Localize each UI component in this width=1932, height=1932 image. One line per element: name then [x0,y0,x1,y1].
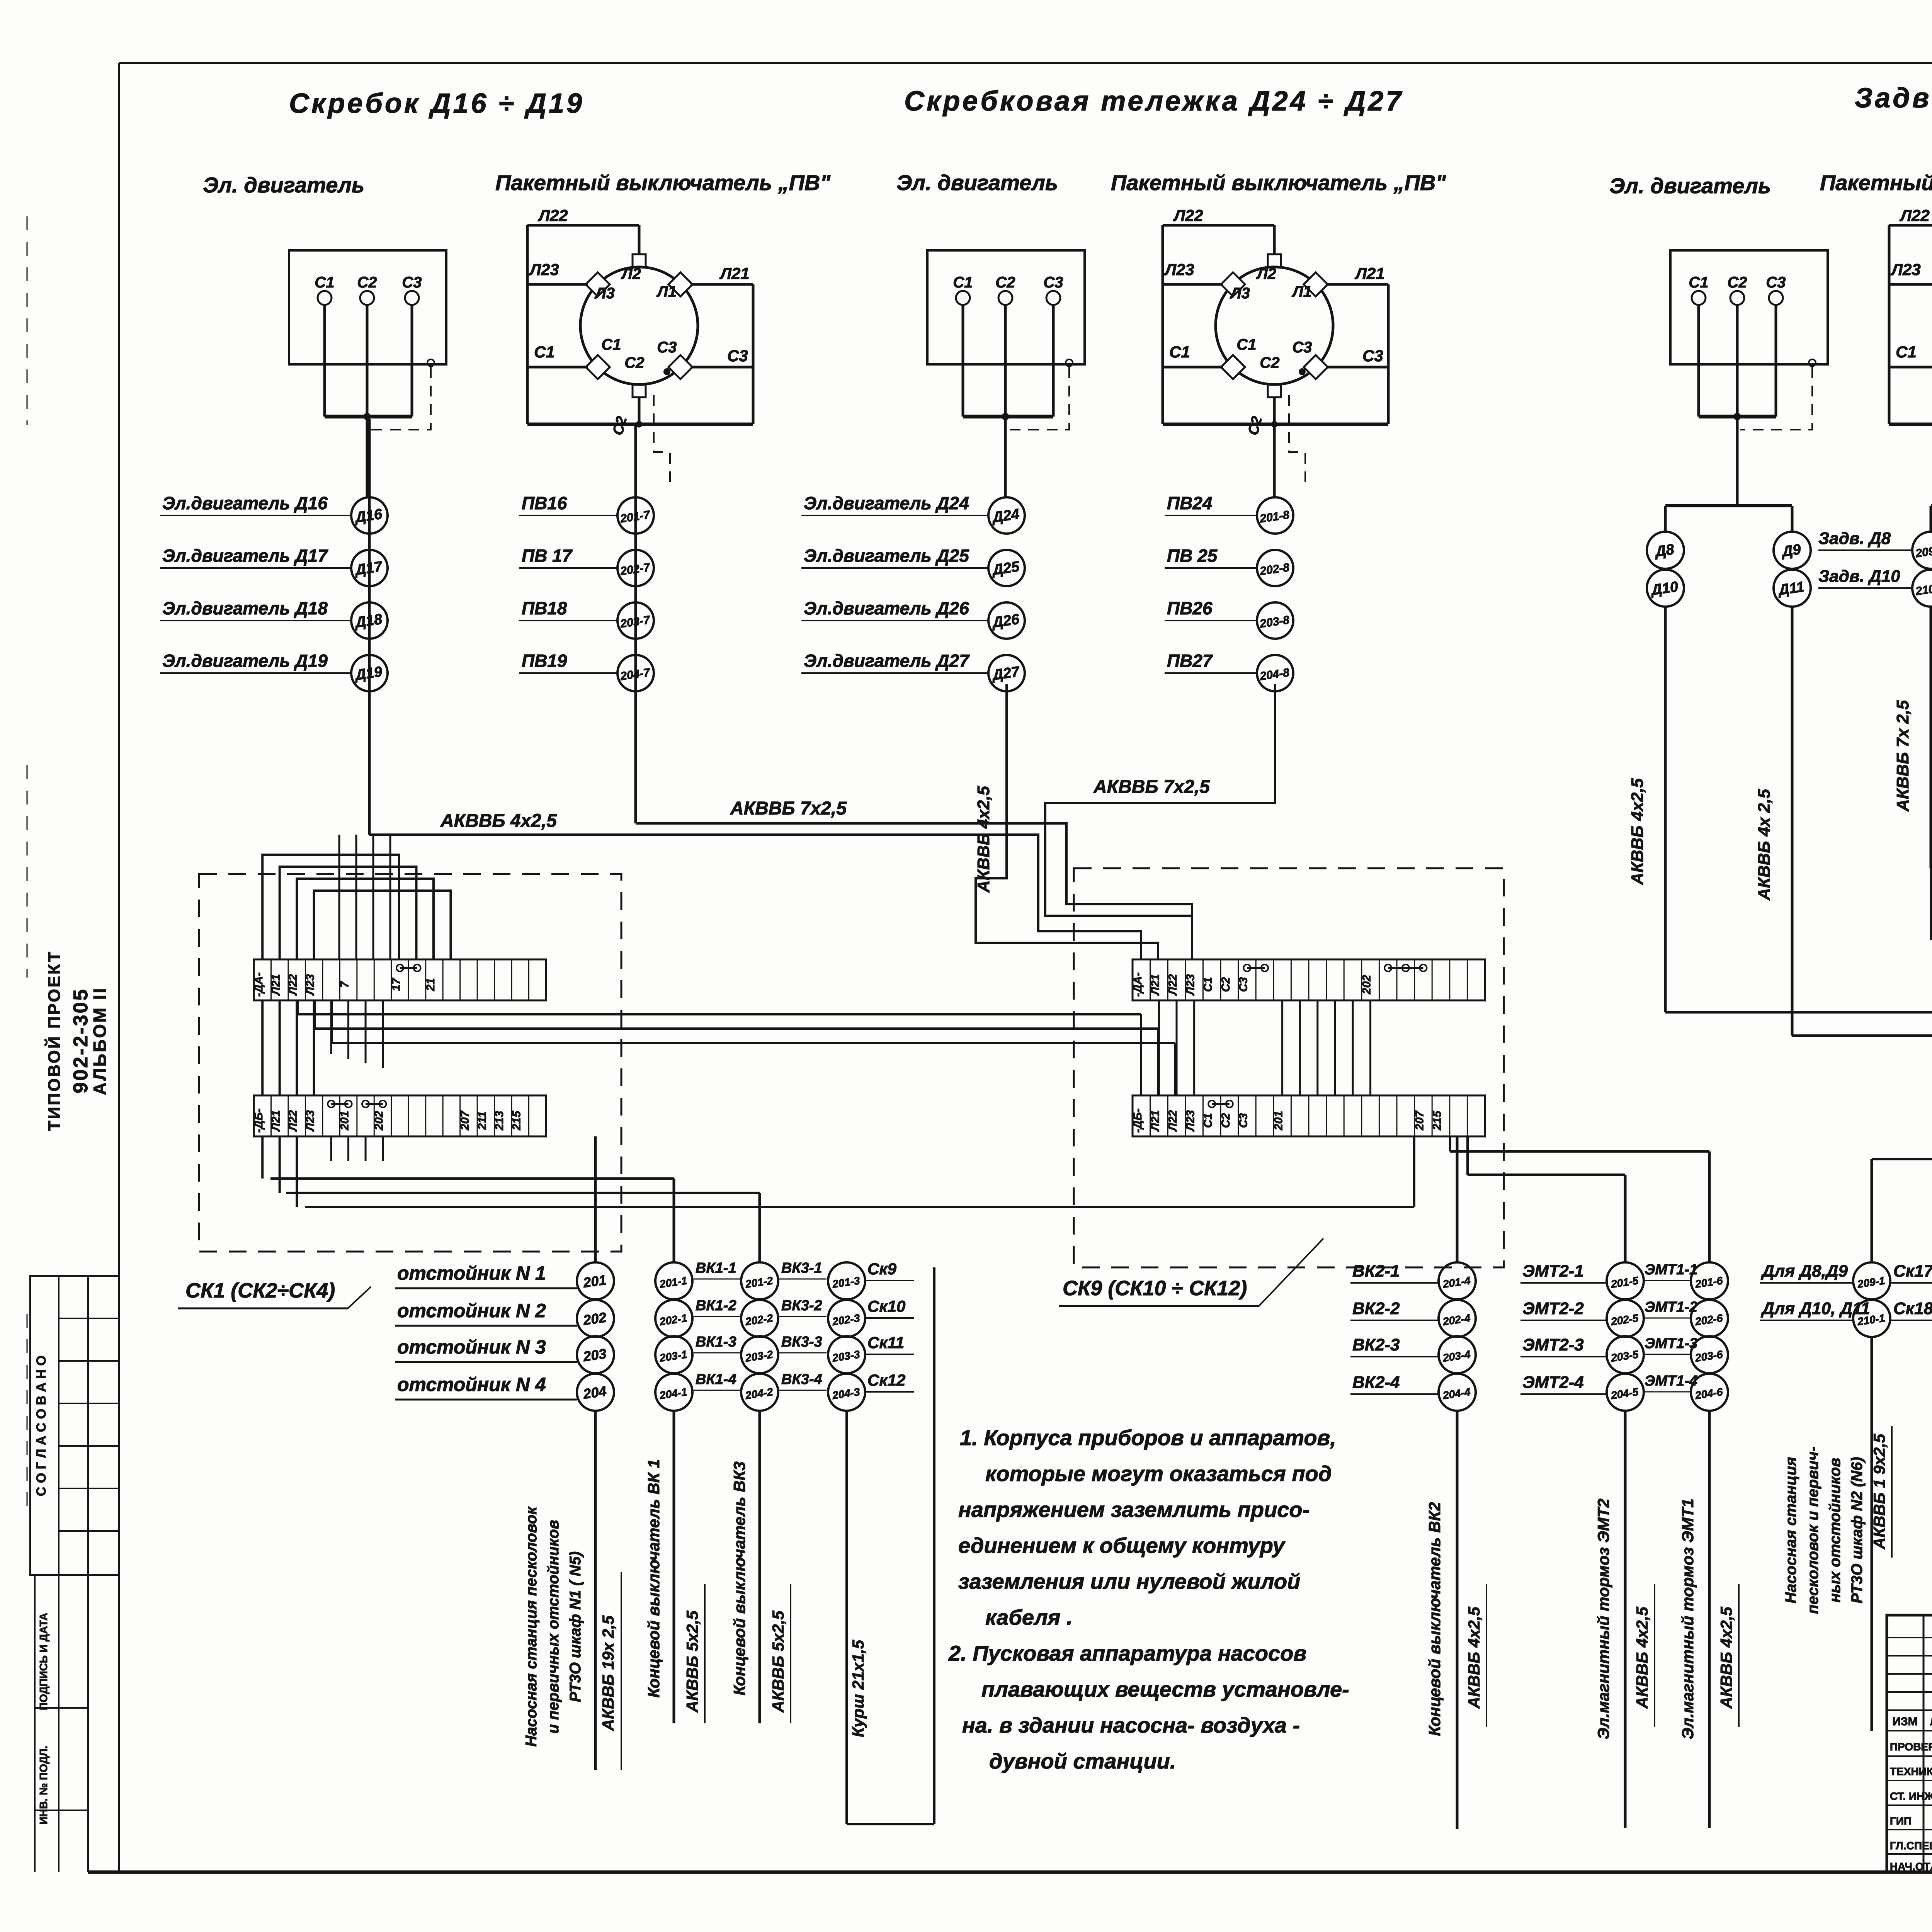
svg-text:204: 204 [582,1383,607,1402]
svg-text:207: 207 [459,1111,471,1131]
svg-text:АКВВБ 19х 2,5: АКВВБ 19х 2,5 [599,1615,617,1731]
svg-text:Пакетный выключатель„ПВ": Пакетный выключатель„ПВ" [1820,170,1932,195]
svg-text:-ДА-: -ДА- [1131,972,1144,997]
svg-text:Задвижки на осадке Д8 ÷ Д1: Задвижки на осадке Д8 ÷ Д11 [1855,83,1932,114]
svg-text:ВК3-1: ВК3-1 [781,1260,822,1276]
svg-text:Л23: Л23 [304,974,317,996]
svg-text:заземления или нулевой жило: заземления или нулевой жилой [958,1569,1300,1594]
svg-text:ЛИСТ: ЛИСТ [1930,1716,1932,1728]
svg-text:ных отстойников: ных отстойников [1827,1458,1844,1603]
svg-text:С1: С1 [1689,274,1708,291]
svg-text:Эл. двигатель: Эл. двигатель [896,170,1058,195]
svg-text:отстойник N 4: отстойник N 4 [397,1374,546,1395]
svg-text:ВК2-2: ВК2-2 [1352,1299,1400,1318]
svg-text:С3: С3 [1043,274,1063,291]
svg-text:215: 215 [1431,1111,1444,1131]
svg-text:ЭМТ2-3: ЭМТ2-3 [1522,1335,1584,1354]
svg-text:единением к общему контуру: единением к общему контуру [958,1533,1286,1558]
svg-text:211: 211 [476,1111,488,1130]
svg-text:С2: С2 [624,354,644,371]
svg-text:ТЕХНИК: ТЕХНИК [1890,1765,1932,1777]
svg-text:Концевой выключатель ВК3: Концевой выключатель ВК3 [730,1461,748,1696]
svg-text:которые могут оказаться под: которые могут оказаться под [985,1461,1332,1486]
svg-text:Л23: Л23 [529,260,559,279]
svg-text:Л23: Л23 [304,1110,317,1132]
svg-text:ВК2-3: ВК2-3 [1352,1335,1400,1354]
svg-text:17: 17 [390,978,403,991]
svg-text:ЭМТ1-4: ЭМТ1-4 [1645,1373,1697,1389]
svg-text:201: 201 [338,1111,351,1131]
svg-text:Л22: Л22 [287,1110,299,1132]
svg-text:Насосная станция: Насосная станция [1782,1457,1799,1603]
svg-text:Эл.двигатель Д18: Эл.двигатель Д18 [162,598,328,618]
svg-text:Л21: Л21 [1354,264,1385,282]
svg-text:-ДБ-: -ДБ- [1131,1109,1144,1133]
svg-text:Задв. Д10: Задв. Д10 [1818,567,1900,586]
svg-text:Эл.магнитный тормоз ЭМТ1: Эл.магнитный тормоз ЭМТ1 [1679,1498,1697,1739]
svg-text:2. Пусковая аппаратура насос: 2. Пусковая аппаратура насосов [948,1641,1306,1665]
svg-text:902-2-305: 902-2-305 [70,988,92,1093]
svg-text:НАЧ.ОТД.: НАЧ.ОТД. [1890,1861,1932,1872]
svg-text:ЭМТ1-1: ЭМТ1-1 [1645,1262,1697,1278]
svg-text:ВК3-2: ВК3-2 [781,1298,822,1314]
svg-text:Л23: Л23 [1184,1110,1197,1132]
svg-text:Л3: Л3 [1230,285,1250,302]
svg-text:ВК1-3: ВК1-3 [696,1334,736,1350]
svg-text:ЭМТ2-4: ЭМТ2-4 [1522,1373,1584,1392]
svg-text:203: 203 [582,1345,607,1364]
svg-text:АКВВБ 1 9х2,5: АКВВБ 1 9х2,5 [1870,1434,1888,1549]
svg-text:С3: С3 [727,347,748,365]
svg-text:Пакетный выключатель „ПВ": Пакетный выключатель „ПВ" [495,170,831,195]
svg-text:Д8: Д8 [1653,541,1675,560]
svg-text:7: 7 [338,981,351,988]
svg-text:ПВ27: ПВ27 [1167,651,1213,671]
svg-text:201: 201 [1272,1111,1285,1131]
svg-text:213: 213 [493,1111,506,1131]
svg-text:С1: С1 [534,343,555,361]
svg-text:202: 202 [373,1111,386,1131]
svg-text:АКВВБ 7х2,5: АКВВБ 7х2,5 [730,798,847,819]
svg-text:АКВВБ 7х 2,5: АКВВБ 7х 2,5 [1893,700,1912,812]
svg-text:ПВ19: ПВ19 [522,651,567,671]
svg-text:ПВ 17: ПВ 17 [522,546,573,566]
svg-text:С1: С1 [1236,336,1256,353]
svg-text:Ск9: Ск9 [867,1260,897,1278]
svg-text:С3: С3 [1292,339,1312,356]
svg-text:СТ. ИНЖ.: СТ. ИНЖ. [1890,1790,1932,1802]
svg-text:С2: С2 [1727,274,1747,291]
svg-text:Ск17: Ск17 [1893,1262,1932,1281]
svg-text:202: 202 [582,1309,607,1328]
svg-text:Насосная станция песколовок: Насосная станция песколовок [523,1506,540,1747]
svg-text:ВК2-4: ВК2-4 [1352,1373,1400,1392]
svg-text:АКВВБ 5х2,5: АКВВБ 5х2,5 [769,1611,787,1713]
svg-text:21: 21 [424,978,437,991]
svg-text:1. Корпуса приборов и аппар: 1. Корпуса приборов и аппаратов, [960,1425,1336,1450]
svg-text:Концевой выключатель ВК2: Концевой выключатель ВК2 [1425,1502,1444,1736]
svg-text:АКВВБ 4х2,5: АКВВБ 4х2,5 [1717,1607,1735,1709]
svg-text:Д9: Д9 [1780,541,1802,560]
svg-text:С1: С1 [1202,1113,1214,1128]
svg-text:Курш 21х1,5: Курш 21х1,5 [849,1639,867,1737]
svg-text:С1: С1 [1202,977,1214,992]
svg-text:напряжением заземлить присо-: напряжением заземлить присо- [958,1497,1310,1522]
svg-text:Л21: Л21 [1149,1110,1162,1132]
svg-text:Л3: Л3 [594,285,615,302]
svg-text:С3: С3 [1766,274,1786,291]
svg-text:Задв. Д8: Задв. Д8 [1818,529,1891,548]
svg-text:АКВВБ 4x2,5: АКВВБ 4x2,5 [440,811,557,831]
svg-text:дувной станции.: дувной станции. [989,1749,1176,1773]
svg-text:кабеля .: кабеля . [985,1605,1073,1629]
svg-text:ПВ16: ПВ16 [522,493,567,513]
svg-text:ЭМТ1-3: ЭМТ1-3 [1645,1335,1697,1352]
svg-text:отстойник N 1: отстойник N 1 [397,1262,546,1284]
svg-text:ВК3-3: ВК3-3 [781,1334,822,1350]
svg-text:Л22: Л22 [537,206,568,224]
svg-text:Пакетный выключатель „ПВ": Пакетный выключатель „ПВ" [1111,170,1446,195]
svg-text:Эл.двигатель Д26: Эл.двигатель Д26 [804,598,969,618]
svg-text:-ДА-: -ДА- [252,972,265,997]
svg-text:Эл.магнитный тормоз ЭМТ2: Эл.магнитный тормоз ЭМТ2 [1594,1498,1612,1739]
svg-text:ГИП: ГИП [1890,1815,1912,1827]
svg-text:Эл.двигатель Д16: Эл.двигатель Д16 [162,493,328,513]
svg-text:АКВВБ 4х2,5: АКВВБ 4х2,5 [974,786,993,893]
svg-text:Л23: Л23 [1890,260,1921,279]
svg-text:С3: С3 [1237,1113,1250,1128]
svg-text:Л22: Л22 [1899,206,1930,224]
svg-text:ВК2-1: ВК2-1 [1352,1262,1400,1281]
svg-text:и первичных отстойников: и первичных отстойников [545,1520,562,1733]
svg-text:Л22: Л22 [1167,974,1179,996]
svg-text:С3: С3 [1237,977,1250,992]
svg-text:ПВ18: ПВ18 [522,598,567,618]
svg-text:С2: С2 [1219,977,1232,992]
svg-text:Ск11: Ск11 [867,1333,904,1352]
svg-text:АКВВБ 4х2,5: АКВВБ 4х2,5 [1628,778,1647,885]
svg-text:РТ3О шкаф N2 (N6): РТ3О шкаф N2 (N6) [1849,1457,1866,1603]
svg-text:песколовок и первич-: песколовок и первич- [1804,1446,1821,1614]
svg-text:РТ3О шкаф N1 ( N5): РТ3О шкаф N1 ( N5) [567,1551,584,1702]
svg-text:С1: С1 [315,274,334,291]
svg-text:ПВ 25: ПВ 25 [1167,546,1218,566]
svg-text:Л1: Л1 [1291,283,1312,300]
svg-text:отстойник N 3: отстойник N 3 [397,1336,546,1358]
svg-text:Эл.двигатель Д17: Эл.двигатель Д17 [162,546,328,566]
svg-text:отстойник N 2: отстойник N 2 [397,1300,546,1321]
svg-text:Л22: Л22 [287,974,299,996]
svg-text:С1: С1 [1896,343,1917,361]
svg-text:Л21: Л21 [1149,974,1162,996]
svg-text:ВК1-4: ВК1-4 [696,1371,736,1388]
svg-text:плавающих веществ установле: плавающих веществ установле- [981,1677,1349,1701]
svg-text:ИЗМ: ИЗМ [1892,1715,1917,1728]
svg-text:202: 202 [1361,975,1373,995]
svg-text:Концевой выключатель ВК 1: Концевой выключатель ВК 1 [645,1459,663,1697]
svg-text:Эл.двигатель Д24: Эл.двигатель Д24 [804,493,969,513]
svg-text:С1: С1 [953,274,973,291]
svg-text:Ск12: Ск12 [867,1371,905,1389]
svg-text:207: 207 [1413,1111,1426,1131]
svg-text:Эл. двигатель: Эл. двигатель [1609,173,1771,198]
svg-text:ЭМТ1-2: ЭМТ1-2 [1645,1299,1697,1315]
svg-text:АКВВБ 7х2,5: АКВВБ 7х2,5 [1093,777,1210,797]
svg-text:С1: С1 [1169,343,1190,361]
svg-text:ВК3-4: ВК3-4 [781,1371,822,1388]
svg-text:С1: С1 [601,336,621,353]
svg-text:Л23: Л23 [1164,260,1194,279]
svg-text:АКВВБ 4х 2,5: АКВВБ 4х 2,5 [1755,789,1774,901]
svg-text:Скребковая тележка Д24 ÷ Д27: Скребковая тележка Д24 ÷ Д27 [904,86,1403,117]
svg-text:ТИПОВОЙ ПРОЕКТ: ТИПОВОЙ ПРОЕКТ [44,950,64,1131]
svg-text:ИНВ. № ПОДЛ.: ИНВ. № ПОДЛ. [37,1746,49,1825]
svg-text:Эл.двигатель Д19: Эл.двигатель Д19 [162,651,328,671]
svg-text:Ск10: Ск10 [867,1297,905,1315]
svg-text:С2: С2 [1219,1113,1232,1128]
svg-text:С2: С2 [1260,354,1279,371]
svg-text:Л21: Л21 [719,264,750,282]
svg-text:Эл.двигатель Д27: Эл.двигатель Д27 [804,651,970,671]
svg-text:Л21: Л21 [270,974,282,996]
svg-text:215: 215 [510,1111,523,1131]
svg-text:201: 201 [582,1272,607,1291]
svg-text:С3: С3 [657,339,677,356]
svg-text:АЛЬБОМ II: АЛЬБОМ II [90,987,110,1095]
svg-text:Л1: Л1 [656,283,677,300]
svg-text:ГЛ.СПЕЦ.: ГЛ.СПЕЦ. [1890,1840,1932,1852]
svg-text:ВК1-2: ВК1-2 [696,1298,736,1314]
svg-text:Ск18: Ск18 [1893,1299,1932,1318]
svg-text:ПВ24: ПВ24 [1167,493,1212,513]
svg-text:С2: С2 [357,274,377,291]
svg-text:АКВВБ 4х2,5: АКВВБ 4х2,5 [1633,1607,1651,1709]
svg-text:Л21: Л21 [270,1110,282,1132]
svg-text:ВК1-1: ВК1-1 [696,1260,736,1276]
svg-text:ПВ26: ПВ26 [1167,598,1213,618]
svg-text:С3: С3 [1362,347,1383,365]
svg-text:на. в здании насосна- воздух: на. в здании насосна- воздуха - [962,1713,1300,1737]
svg-text:ПОДПИСЬ И ДАТА: ПОДПИСЬ И ДАТА [37,1613,49,1710]
svg-text:-ДБ-: -ДБ- [252,1109,265,1133]
svg-text:С2: С2 [995,274,1015,291]
svg-text:ЭМТ2-2: ЭМТ2-2 [1522,1299,1584,1318]
svg-text:Л2: Л2 [1256,265,1276,282]
svg-text:Л22: Л22 [1173,206,1203,224]
svg-text:С О Г Л А С О В А Н О: С О Г Л А С О В А Н О [34,1355,49,1496]
svg-text:АКВВБ 4х2,5: АКВВБ 4х2,5 [1465,1607,1483,1709]
svg-text:АКВВБ 5х2,5: АКВВБ 5х2,5 [683,1611,701,1713]
svg-text:ЭМТ2-1: ЭМТ2-1 [1522,1262,1584,1281]
svg-text:Л2: Л2 [621,265,641,282]
svg-text:С3: С3 [402,274,422,291]
svg-text:СК9 (СК10 ÷ СК12): СК9 (СК10 ÷ СК12) [1063,1277,1247,1300]
svg-text:СК1 (СК2÷СК4): СК1 (СК2÷СК4) [185,1279,335,1302]
svg-text:ПРОВЕРИЛ: ПРОВЕРИЛ [1890,1741,1932,1753]
svg-text:Л23: Л23 [1184,974,1197,996]
svg-text:Эл.двигатель Д25: Эл.двигатель Д25 [804,546,969,566]
svg-text:Эл. двигатель: Эл. двигатель [203,173,364,197]
svg-text:Для Д8,Д9: Для Д8,Д9 [1760,1262,1848,1281]
svg-text:Скребок Д16 ÷ Д19: Скребок Д16 ÷ Д19 [289,88,584,119]
svg-text:Л22: Л22 [1167,1110,1179,1132]
